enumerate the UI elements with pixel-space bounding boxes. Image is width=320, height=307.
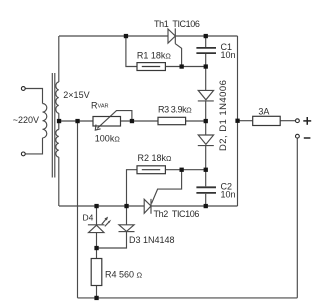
node D4 top <box>94 204 98 208</box>
node R4 bottom <box>94 296 98 300</box>
wire Th2 gate <box>152 170 182 204</box>
terminal primary top <box>21 87 25 91</box>
node junction C1 top <box>204 34 208 38</box>
wire Rvar wiper <box>97 111 132 129</box>
node junction top R1 <box>124 34 128 38</box>
wire <box>205 36 207 47</box>
svg-text:R3 3.9kΩ: R3 3.9kΩ <box>158 105 192 115</box>
wire return branch <box>77 121 79 298</box>
wire secondary tap segment <box>58 113 60 129</box>
wire <box>205 146 207 187</box>
thyristor Th2 <box>144 199 151 214</box>
node return branch <box>75 119 79 123</box>
node wiper junction <box>130 119 134 123</box>
wire middle rail <box>59 120 93 122</box>
resistor R4 <box>91 259 102 286</box>
label plus <box>303 117 311 125</box>
svg-text:Th1 TIC106: Th1 TIC106 <box>154 19 200 29</box>
diode D3 <box>126 206 128 225</box>
label minus <box>304 137 311 139</box>
resistor R3 <box>158 117 186 124</box>
wire bottom rail <box>59 205 144 207</box>
wire <box>205 101 207 135</box>
thyristor Th1 <box>168 28 175 43</box>
node center tap <box>57 119 61 123</box>
wire <box>121 120 159 122</box>
fuse F1 <box>253 116 281 125</box>
wire <box>296 138 298 298</box>
svg-text:10n: 10n <box>221 50 236 60</box>
svg-text:Th2 TIC106: Th2 TIC106 <box>154 209 200 219</box>
wire R1 branch <box>126 36 137 67</box>
wire <box>205 54 207 67</box>
wire <box>165 66 205 68</box>
wire <box>175 35 237 37</box>
transformer secondary winding lower <box>56 130 59 158</box>
wire <box>151 205 238 207</box>
capacitor C2 <box>196 186 216 188</box>
wire R4 top lead <box>96 248 98 259</box>
svg-text:D3 1N4148: D3 1N4148 <box>129 235 175 245</box>
svg-text:R2 18kΩ: R2 18kΩ <box>138 153 173 163</box>
svg-text:2×15V: 2×15V <box>63 90 89 100</box>
wire <box>97 232 127 248</box>
resistor R2 <box>137 166 165 174</box>
wire fuse left lead <box>238 120 253 122</box>
svg-text:R1 18kΩ: R1 18kΩ <box>137 51 172 61</box>
wire right rail <box>237 36 239 206</box>
wire <box>26 89 43 104</box>
wire <box>165 169 205 171</box>
wire <box>205 194 207 206</box>
diode D1 <box>198 135 213 144</box>
svg-text:D2, D1 1N4006: D2, D1 1N4006 <box>218 80 229 151</box>
node D4 bottom <box>94 246 98 250</box>
terminal primary bottom <box>21 152 25 156</box>
transformer primary winding <box>43 104 47 138</box>
node R3 right <box>204 119 208 123</box>
wire <box>26 138 43 154</box>
terminal output plus <box>296 119 300 123</box>
wire <box>186 120 206 122</box>
svg-text:100kΩ: 100kΩ <box>95 134 121 144</box>
node C2 bottom <box>204 204 208 208</box>
capacitor C1 <box>196 47 216 49</box>
node gate Th2 <box>180 168 184 172</box>
terminal output minus <box>296 134 300 138</box>
wire bottom return rail <box>78 297 298 299</box>
node junction gate Th1 <box>180 64 184 68</box>
LED D4 arrows <box>102 218 107 224</box>
node fuse tap <box>235 119 239 123</box>
wire secondary top lead <box>58 36 60 82</box>
svg-text:D4: D4 <box>83 213 94 223</box>
node junction C1 bottom <box>204 64 208 68</box>
wire fuse right lead <box>280 120 295 122</box>
resistor R1 <box>137 63 165 71</box>
svg-text:10n: 10n <box>221 190 236 200</box>
wire R4 bottom lead <box>96 286 98 298</box>
svg-text:R4 560 Ω: R4 560 Ω <box>105 269 143 279</box>
svg-text:~220V: ~220V <box>13 115 39 125</box>
node R2 right <box>204 168 208 172</box>
potentiometer Rvar <box>93 117 121 127</box>
diode D2 <box>198 90 213 99</box>
svg-text:3A: 3A <box>258 107 269 117</box>
wire R2 branch <box>127 170 138 206</box>
transformer secondary winding upper <box>56 82 59 113</box>
LED D4 <box>96 206 98 225</box>
wire <box>205 67 207 91</box>
wire Th1 gate <box>175 44 181 67</box>
wire secondary bottom lead <box>58 157 60 206</box>
transformer core <box>51 73 53 178</box>
wire top rail <box>59 35 168 37</box>
node D3 top <box>124 204 128 208</box>
